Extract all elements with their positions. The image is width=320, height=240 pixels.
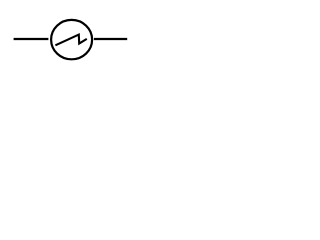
sawtooth waveform [55,35,86,46]
wire [14,38,49,40]
sawtooth signal source [51,20,92,59]
wire [94,38,127,40]
